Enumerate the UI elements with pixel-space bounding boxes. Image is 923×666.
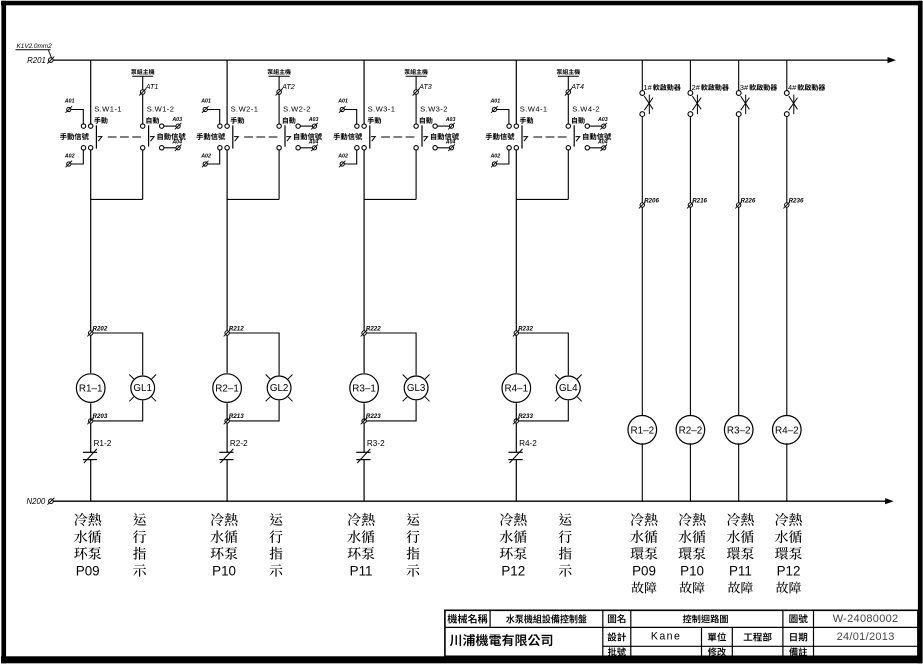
auto signal contact pair bottom A04 [296, 139, 319, 151]
wire fault branch 2 drop [689, 60, 691, 90]
svg-text:A04: A04 [171, 139, 182, 145]
svg-text:24/01/2013: 24/01/2013 [837, 631, 895, 643]
terminal R236 [783, 197, 804, 208]
wire to terminal R226 [738, 117, 740, 203]
wire coil to N200 bus [641, 443, 643, 501]
wire cable label K1V2.0mm2 [16, 43, 53, 58]
label run indication [269, 513, 282, 577]
selector switch S.W1-1 manual pole [60, 105, 122, 150]
title block row2 texts [608, 630, 895, 642]
wire contact to N200 bus [226, 460, 228, 502]
svg-text:K1V2.0mm2: K1V2.0mm2 [17, 43, 53, 50]
wire A01 to switch [497, 110, 509, 124]
terminal AT4 [566, 90, 571, 95]
wire AT4 drop to switch [567, 94, 569, 124]
selector switch S.W4-2 auto pole [566, 105, 611, 150]
label run indication [133, 513, 146, 577]
auto signal contact pair top A03 [160, 117, 183, 129]
svg-text:2#: 2# [692, 83, 701, 92]
wire switch outputs merge [364, 150, 416, 331]
relay coil R4-2 [773, 416, 802, 445]
wire switch outputs merge [516, 150, 568, 331]
relay coil R3-1 [350, 374, 379, 403]
svg-text:R3-2: R3-2 [367, 439, 385, 448]
wire fault branch 4 drop [786, 60, 788, 90]
svg-text:P12: P12 [777, 564, 801, 579]
wire AT2 drop to switch [278, 94, 280, 124]
wire switch outputs merge [227, 150, 279, 331]
wire coil to N200 bus [786, 443, 788, 501]
svg-text:A04: A04 [308, 139, 319, 145]
wire coil drop [226, 335, 228, 373]
svg-text:P11: P11 [350, 564, 373, 579]
wire branch 2 main drop from R201 bus [226, 60, 228, 124]
label pump P11 function [347, 513, 374, 579]
wire lamp branch bottom [366, 400, 416, 421]
wire coil to contact [363, 403, 365, 421]
wire fault branch 3 drop [738, 60, 740, 90]
fault contact switch 1# [640, 91, 653, 117]
label pump P12 fault [775, 513, 802, 593]
svg-text:A02: A02 [200, 154, 211, 160]
relay coil R2-2 [676, 416, 705, 445]
svg-text:AT2: AT2 [281, 82, 295, 91]
svg-text:N200: N200 [27, 497, 46, 506]
wire to coil R4-2 [786, 207, 788, 415]
svg-text:R212: R212 [229, 325, 244, 332]
selector switch S.W3-2 auto pole [414, 105, 459, 150]
svg-text:R226: R226 [741, 197, 756, 204]
wire A01 to switch [71, 110, 83, 124]
wire branch 4 main drop from R201 bus [515, 60, 517, 124]
title block [445, 610, 918, 656]
wire coil to contact [90, 403, 92, 421]
fault contact switch 3# [736, 91, 749, 117]
indicator lamp GL1 [129, 375, 156, 402]
terminal R213 [224, 413, 245, 424]
svg-text:S.W1-2: S.W1-2 [147, 105, 175, 114]
svg-text:P10: P10 [680, 564, 704, 579]
svg-text:P09: P09 [632, 564, 656, 579]
wire lamp branch top [229, 333, 279, 375]
terminal R212 [224, 325, 245, 336]
wire contact to N200 bus [515, 460, 517, 502]
svg-text:A03: A03 [171, 117, 182, 123]
title block company name [450, 635, 461, 647]
terminal A02 (manual signal out) [337, 154, 348, 168]
net label to pump main circuit (AT4) [557, 69, 580, 90]
selector switch S.W2-2 auto pole [277, 105, 322, 150]
svg-text:R216: R216 [692, 197, 707, 204]
wire coil to N200 bus [738, 443, 740, 501]
net label to pump main circuit (AT1) [131, 69, 154, 90]
svg-text:R213: R213 [229, 413, 244, 420]
wire switch outputs merge [91, 150, 143, 331]
svg-text:A04: A04 [445, 139, 456, 145]
wire AT1 drop to switch [142, 94, 144, 124]
terminal A02 (manual signal out) [64, 154, 75, 168]
terminal R233 [513, 413, 534, 424]
wire fault branch 1 drop [641, 60, 643, 90]
NC contact R4-2 [509, 439, 538, 463]
svg-text:A01: A01 [489, 99, 500, 105]
wire lamp branch top [519, 333, 569, 375]
svg-text:S.W4-1: S.W4-1 [520, 105, 548, 114]
svg-text:S.W1-1: S.W1-1 [94, 105, 122, 114]
label 2# soft starter [692, 83, 729, 92]
label pump P11 fault [727, 513, 754, 593]
fault contact switch 4# [784, 91, 797, 117]
wire contact to N200 bus [363, 460, 365, 502]
svg-text:AT1: AT1 [145, 82, 159, 91]
auto signal contact pair top A03 [296, 117, 319, 129]
svg-text:A01: A01 [337, 99, 348, 105]
svg-text:S.W2-2: S.W2-2 [283, 105, 311, 114]
terminal A01 (manual signal in) [200, 99, 211, 113]
net label to pump main circuit (AT3) [404, 69, 427, 90]
svg-text:P10: P10 [212, 564, 236, 579]
selector switch S.W4-1 manual pole [486, 105, 548, 150]
wire to coil R1-2 [641, 207, 643, 415]
wire lamp branch top [93, 333, 143, 375]
label 4# soft starter [788, 83, 825, 92]
svg-text:AT4: AT4 [570, 82, 584, 91]
svg-text:A01: A01 [64, 99, 75, 105]
NC contact R2-2 [219, 439, 248, 463]
fault contact switch 2# [688, 91, 701, 117]
NC contact R3-2 [356, 439, 385, 463]
selector switch S.W2-1 manual pole [196, 105, 258, 150]
wire coil to contact [515, 403, 517, 421]
svg-text:R233: R233 [518, 413, 533, 420]
terminal R206 [639, 197, 660, 208]
label run indication [559, 513, 572, 577]
selector switch S.W3-1 manual pole [333, 105, 395, 150]
svg-text:P09: P09 [76, 564, 100, 579]
svg-text:GL1: GL1 [133, 383, 152, 394]
wire to coil R3-2 [738, 207, 740, 415]
wire coil drop [363, 335, 365, 373]
terminal R226 [735, 197, 756, 208]
indicator lamp GL3 [403, 375, 430, 402]
terminal R222 [361, 325, 382, 336]
svg-text:P11: P11 [729, 564, 752, 579]
auto signal contact pair bottom A04 [585, 139, 608, 151]
wire contact to N200 bus [90, 460, 92, 502]
svg-text:GL3: GL3 [407, 383, 426, 394]
wire A02 to switch [207, 150, 219, 164]
wire top bus R201 [53, 57, 896, 63]
svg-text:R3–1: R3–1 [352, 384, 376, 395]
label pump P12 function [500, 513, 527, 579]
svg-text:A03: A03 [308, 117, 319, 123]
svg-text:A04: A04 [597, 139, 608, 145]
svg-text:W-24080002: W-24080002 [833, 613, 899, 625]
svg-text:P12: P12 [501, 564, 525, 579]
title block row1 texts [448, 613, 899, 625]
terminal AT3 [414, 90, 419, 95]
wire A01 to switch [344, 110, 356, 124]
wire to coil R2-2 [689, 207, 691, 415]
wire to terminal R236 [786, 117, 788, 203]
node N200 terminal [27, 497, 55, 506]
title block row3 texts [608, 647, 807, 656]
mechanical link dashed [381, 136, 416, 138]
svg-text:R223: R223 [366, 413, 381, 420]
wire to terminal R206 [641, 117, 643, 203]
auto signal contact pair bottom A04 [433, 139, 456, 151]
terminal AT2 [277, 90, 282, 95]
wire A02 to switch [497, 150, 509, 164]
label 1# soft starter [644, 83, 681, 92]
svg-text:A02: A02 [489, 154, 500, 160]
svg-text:S.W3-2: S.W3-2 [420, 105, 448, 114]
label pump P09 fault [630, 513, 657, 593]
indicator lamp GL2 [266, 375, 293, 402]
wire to terminal R216 [689, 117, 691, 203]
svg-text:S.W4-2: S.W4-2 [572, 105, 600, 114]
terminal AT1 [140, 90, 145, 95]
terminal A02 (manual signal out) [200, 154, 211, 168]
svg-text:A03: A03 [445, 117, 456, 123]
svg-text:GL2: GL2 [270, 383, 289, 394]
wire coil to contact [226, 403, 228, 421]
mechanical link dashed [244, 136, 279, 138]
svg-text:R2–1: R2–1 [215, 384, 239, 395]
svg-text:R4–2: R4–2 [775, 425, 799, 436]
wire lamp branch bottom [93, 400, 143, 421]
mechanical link dashed [108, 136, 143, 138]
svg-text:R232: R232 [518, 325, 533, 332]
relay coil R1-1 [76, 374, 105, 403]
terminal A02 (manual signal out) [489, 154, 500, 168]
svg-text:R1–1: R1–1 [79, 384, 103, 395]
terminal R216 [687, 197, 708, 208]
label 3# soft starter [740, 83, 777, 92]
relay coil R3-2 [724, 416, 753, 445]
svg-text:R201: R201 [27, 56, 46, 65]
svg-text:S.W3-1: S.W3-1 [368, 105, 396, 114]
wire A02 to switch [344, 150, 356, 164]
svg-text:R203: R203 [93, 413, 108, 420]
relay coil R1-2 [628, 416, 657, 445]
svg-text:R4-2: R4-2 [519, 439, 537, 448]
terminal A01 (manual signal in) [489, 99, 500, 113]
wire lamp branch top [366, 333, 416, 375]
terminal R203 [87, 413, 108, 424]
svg-text:R206: R206 [644, 197, 659, 204]
svg-text:R222: R222 [366, 325, 381, 332]
svg-text:R2–2: R2–2 [679, 425, 703, 436]
label pump P10 fault [678, 513, 705, 593]
auto signal contact pair top A03 [585, 117, 608, 129]
wire bottom bus N200 [53, 498, 893, 504]
terminal R232 [513, 325, 534, 336]
wire coil drop [515, 335, 517, 373]
relay coil R2-1 [213, 374, 242, 403]
label pump P09 function [74, 513, 101, 579]
terminal A01 (manual signal in) [337, 99, 348, 113]
node R201 terminal [27, 56, 54, 65]
svg-text:R202: R202 [93, 325, 108, 332]
svg-text:R236: R236 [789, 197, 804, 204]
svg-text:1#: 1# [644, 83, 653, 92]
auto signal contact pair top A03 [433, 117, 456, 129]
svg-text:A02: A02 [64, 154, 75, 160]
svg-text:R3–2: R3–2 [727, 425, 751, 436]
label pump P10 function [210, 513, 237, 579]
svg-text:R1–2: R1–2 [630, 425, 654, 436]
wire AT3 drop to switch [415, 94, 417, 124]
svg-text:A01: A01 [200, 99, 211, 105]
mechanical link dashed [533, 136, 568, 138]
label run indication [406, 513, 419, 577]
net label to pump main circuit (AT2) [267, 69, 290, 90]
svg-text:3#: 3# [740, 83, 749, 92]
svg-text:4#: 4# [788, 83, 797, 92]
svg-text:R2-2: R2-2 [230, 439, 248, 448]
wire coil drop [90, 335, 92, 373]
wire coil to N200 bus [689, 443, 691, 501]
selector switch S.W1-2 auto pole [141, 105, 186, 150]
svg-text:A03: A03 [597, 117, 608, 123]
svg-text:AT3: AT3 [418, 82, 432, 91]
svg-text:R4–1: R4–1 [504, 384, 528, 395]
wire branch 3 main drop from R201 bus [363, 60, 365, 124]
auto signal contact pair bottom A04 [160, 139, 183, 151]
svg-text:A02: A02 [337, 154, 348, 160]
wire lamp branch bottom [229, 400, 279, 421]
wire branch 1 main drop from R201 bus [90, 60, 92, 124]
terminal A01 (manual signal in) [64, 99, 75, 113]
wire A01 to switch [207, 110, 219, 124]
relay coil R4-1 [502, 374, 531, 403]
NC contact R1-2 [83, 439, 112, 463]
svg-text:S.W2-1: S.W2-1 [231, 105, 259, 114]
terminal R223 [361, 413, 382, 424]
wire lamp branch bottom [519, 400, 569, 421]
terminal R202 [87, 325, 108, 336]
wire A02 to switch [71, 150, 83, 164]
svg-text:GL4: GL4 [559, 383, 578, 394]
indicator lamp GL4 [555, 375, 582, 402]
svg-text:R1-2: R1-2 [94, 439, 112, 448]
svg-text:Kane: Kane [651, 630, 681, 642]
